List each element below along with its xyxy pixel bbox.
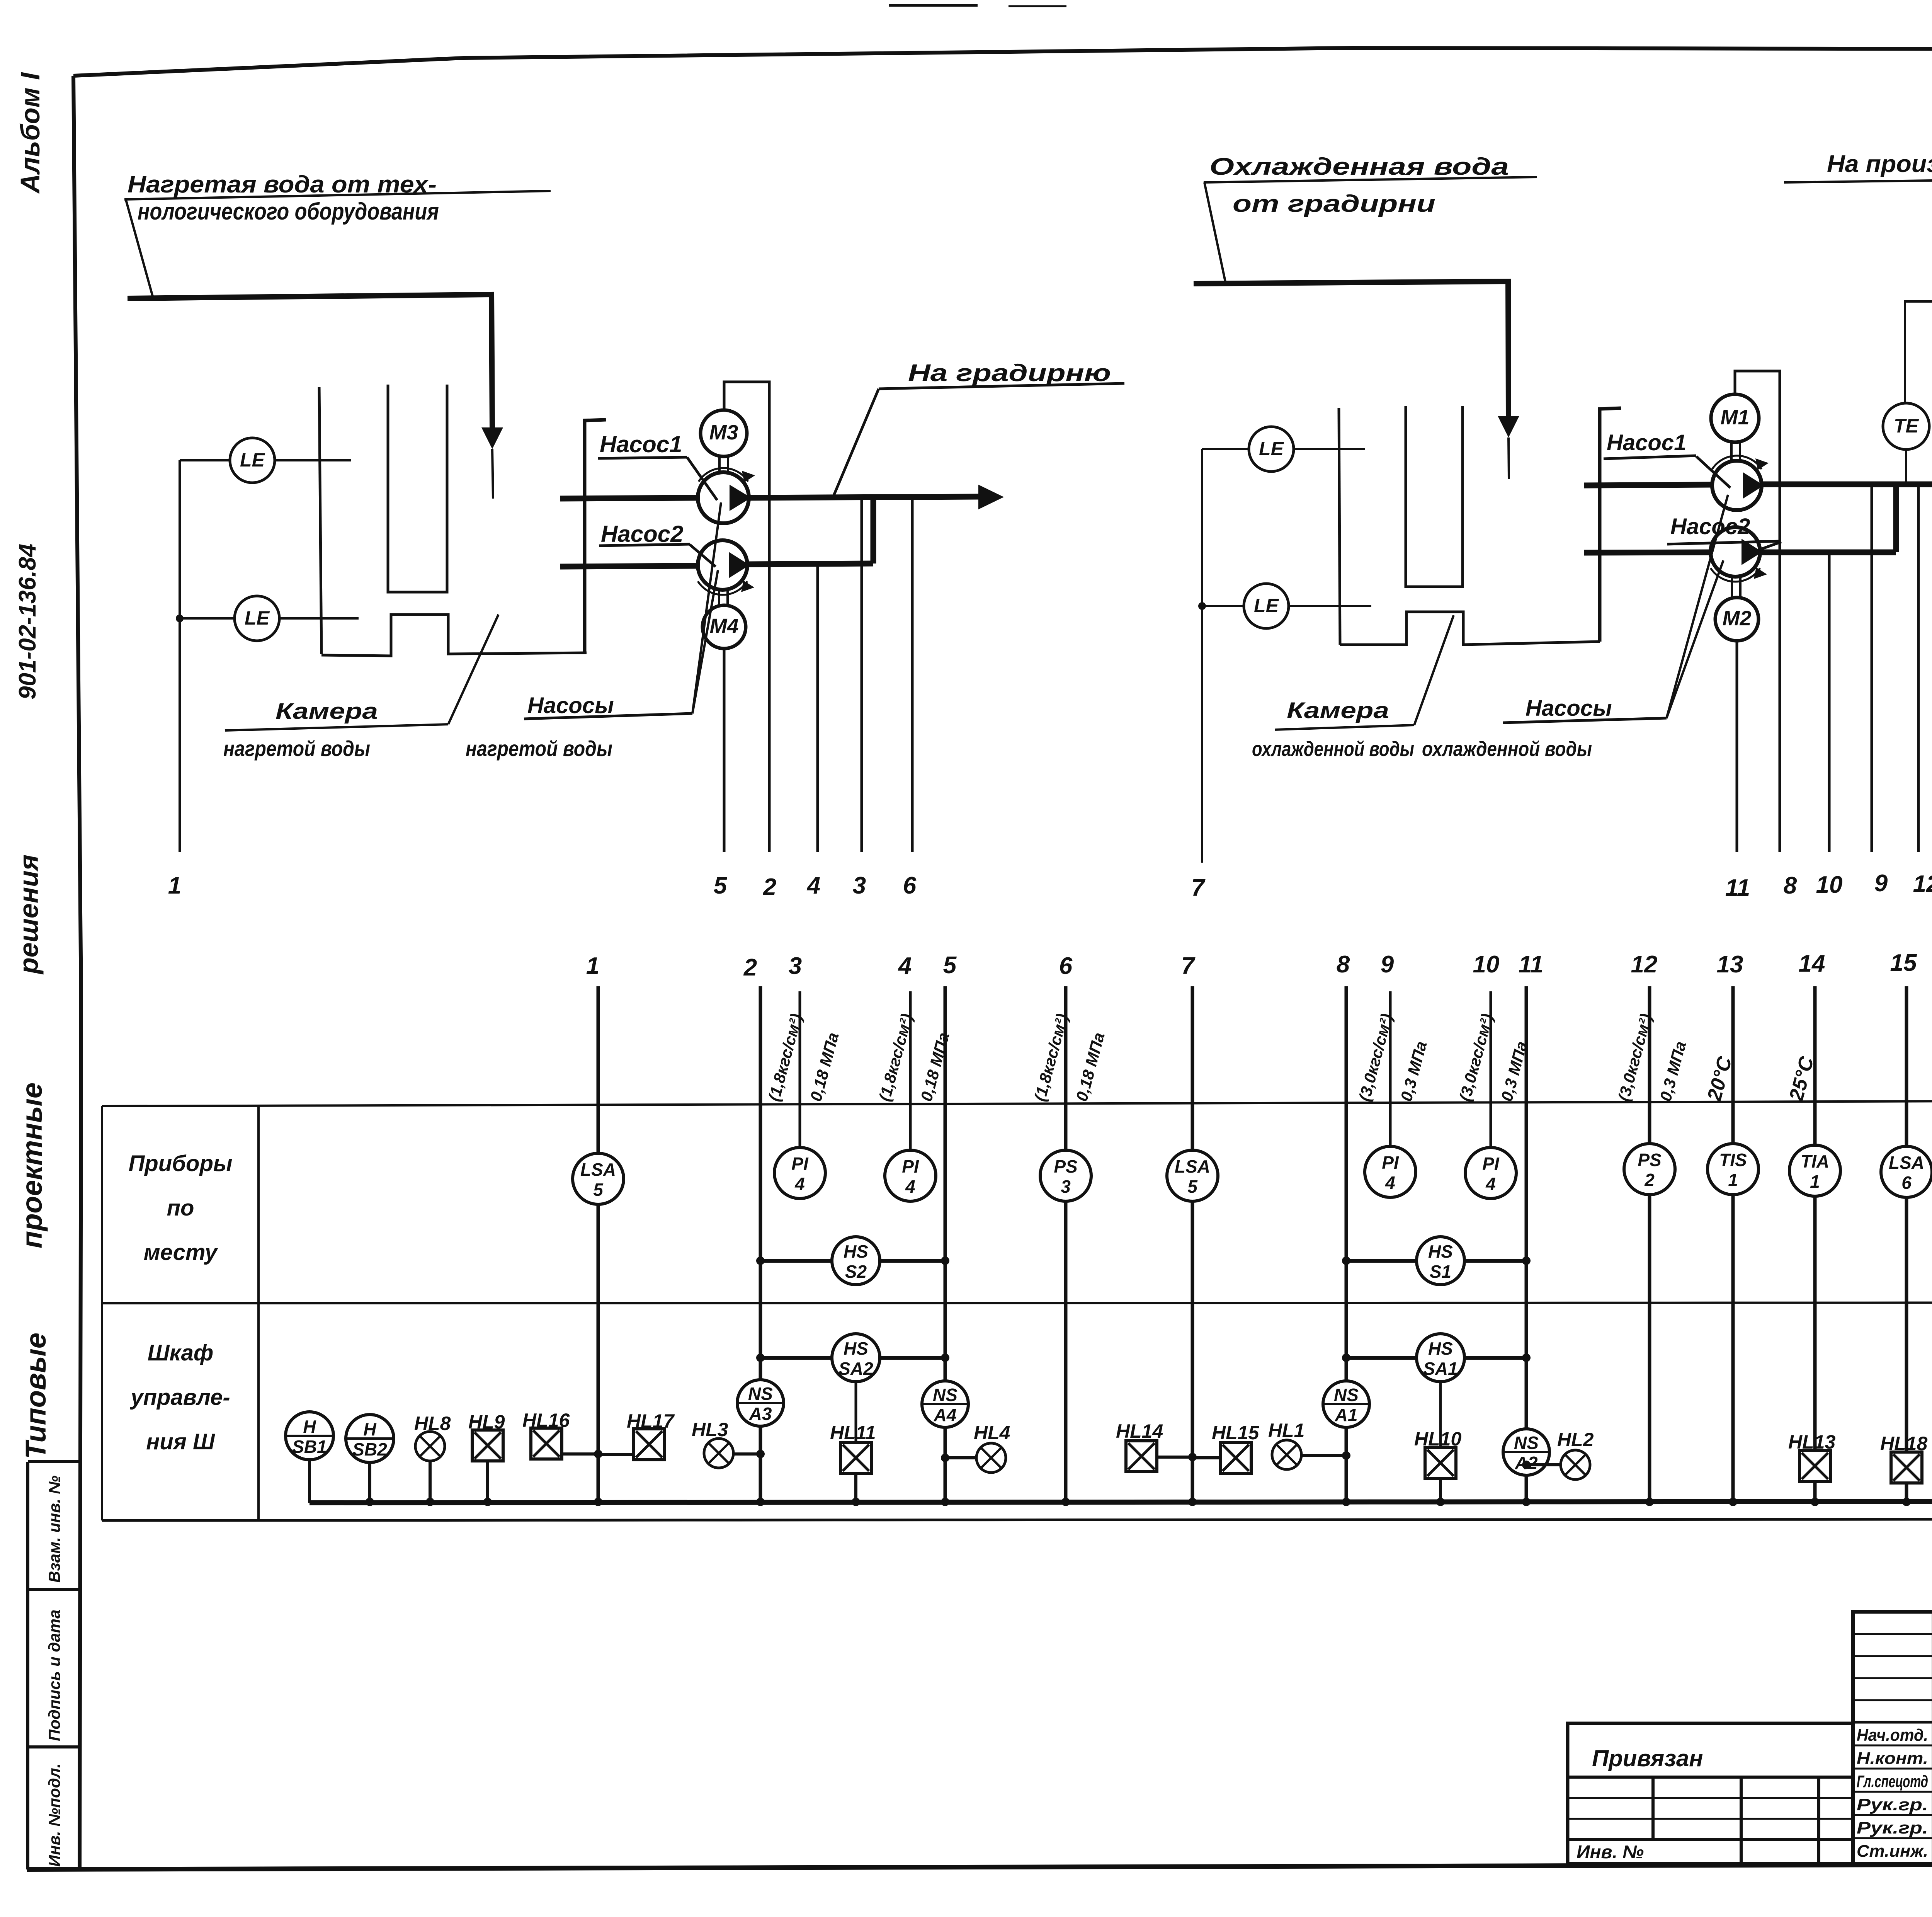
svg-text:TIS: TIS <box>1719 1150 1747 1170</box>
title block outline <box>1853 1612 1932 1864</box>
svg-text:S1: S1 <box>1430 1262 1451 1282</box>
discharge pipe pump2 left <box>747 564 873 564</box>
discharge arrow На градирню <box>978 485 1004 509</box>
svg-text:Н.конт.: Н.конт. <box>1857 1749 1928 1768</box>
pump Насос1 right <box>1584 485 1712 485</box>
svg-text:PI: PI <box>1482 1154 1500 1174</box>
instrument PI 4 (line 3) <box>774 1147 825 1199</box>
svg-text:6: 6 <box>1059 953 1073 979</box>
title block header row line <box>1853 1721 1932 1724</box>
svg-text:4: 4 <box>1385 1173 1395 1193</box>
riser pump2 to main left <box>871 498 876 564</box>
svg-text:ТЕ: ТЕ <box>1894 415 1919 437</box>
svg-text:На производство: На производство <box>1827 151 1932 177</box>
svg-text:Нач.отд.: Нач.отд. <box>1857 1726 1928 1745</box>
feed arrow cold <box>1498 416 1519 438</box>
rotation arc pump2 right <box>1711 568 1760 582</box>
motor M3 cable bracket / wire 2 <box>724 382 769 852</box>
instrument TIA 1 <box>1789 1145 1840 1196</box>
column 7 <box>1191 986 1194 1503</box>
svg-text:0,18 МПа: 0,18 МПа <box>917 1030 952 1103</box>
svg-text:HS: HS <box>844 1241 868 1262</box>
instrument HS S1 <box>1417 1237 1464 1285</box>
bus junction <box>1645 1498 1654 1506</box>
svg-text:HS: HS <box>1428 1338 1453 1359</box>
instrument LSA 5 <box>573 1153 624 1204</box>
table bottom line <box>102 1519 1932 1520</box>
svg-text:1: 1 <box>1728 1170 1738 1190</box>
svg-text:Охлажденная вода: Охлажденная вода <box>1209 153 1509 180</box>
wire 6 <box>911 498 914 852</box>
svg-text:5: 5 <box>1187 1176 1198 1197</box>
motor M1 cable bracket / wire 8 <box>1735 371 1780 852</box>
column 8 <box>1345 986 1348 1503</box>
title block small grid rows <box>1853 1633 1932 1635</box>
instrument LSA 5 (second) <box>1167 1150 1218 1201</box>
svg-text:Гл.спецотд: Гл.спецотд <box>1857 1772 1928 1791</box>
svg-text:охлажденной воды: охлажденной воды <box>1252 737 1414 761</box>
instrument NS A4 <box>922 1381 968 1427</box>
svg-text:охлажденной воды: охлажденной воды <box>1422 737 1592 761</box>
svg-text:LE: LE <box>1254 595 1279 616</box>
instrument PS 2 <box>1624 1144 1675 1195</box>
button H SB2 <box>346 1415 394 1462</box>
wire 7 vertical <box>1201 449 1203 863</box>
svg-text:LE: LE <box>245 607 270 629</box>
svg-text:3: 3 <box>789 953 802 979</box>
svg-text:Камера: Камера <box>276 699 378 724</box>
node junction LE <box>176 615 184 622</box>
svg-text:SA1: SA1 <box>1423 1359 1458 1379</box>
svg-text:LE: LE <box>1259 438 1284 460</box>
svg-text:нагретой воды: нагретой воды <box>466 736 612 761</box>
svg-text:2: 2 <box>763 874 776 901</box>
svg-text:5: 5 <box>943 952 957 979</box>
svg-text:12: 12 <box>1913 871 1932 897</box>
svg-text:проектные: проектные <box>16 1083 48 1248</box>
column 10 stub <box>1490 991 1492 1147</box>
svg-text:нагретой воды: нагретой воды <box>223 736 370 761</box>
motor M2 <box>1731 577 1733 598</box>
svg-text:1: 1 <box>168 872 181 899</box>
bus junction <box>1522 1498 1531 1506</box>
svg-text:Шкаф: Шкаф <box>148 1340 213 1365</box>
bus line <box>310 1501 1932 1503</box>
discharge pump2 right <box>1760 550 1896 555</box>
chamber hot water: left wall <box>319 387 321 654</box>
bus junction <box>1188 1498 1197 1506</box>
button H SB1 <box>286 1412 333 1460</box>
column 5 <box>944 986 947 1503</box>
chamber inlet U-pipe <box>388 385 447 592</box>
svg-text:NS: NS <box>1514 1433 1539 1453</box>
svg-text:4: 4 <box>806 872 820 899</box>
svg-text:Инв. №: Инв. № <box>1577 1842 1644 1863</box>
svg-text:SA2: SA2 <box>838 1359 873 1379</box>
border frame top <box>73 48 1932 76</box>
svg-text:Камера: Камера <box>1287 698 1389 723</box>
column 14 <box>1813 986 1817 1503</box>
svg-text:14: 14 <box>1799 950 1825 977</box>
column 6 <box>1064 986 1068 1503</box>
svg-text:4: 4 <box>794 1174 805 1194</box>
column 13 <box>1731 986 1735 1503</box>
wire 3 <box>861 498 863 852</box>
LE sensor (upper) hot chamber <box>180 459 230 461</box>
svg-text:0,3 МПа: 0,3 МПа <box>1656 1039 1689 1103</box>
svg-text:ния Ш: ния Ш <box>146 1429 215 1454</box>
Привязан box <box>1568 1723 1853 1864</box>
svg-text:5: 5 <box>714 872 728 899</box>
svg-text:Подпись и дата: Подпись и дата <box>45 1610 63 1741</box>
svg-text:4: 4 <box>898 953 912 979</box>
svg-text:HS: HS <box>844 1338 868 1359</box>
chamber right wall <box>585 420 606 653</box>
svg-text:9: 9 <box>1874 870 1888 897</box>
svg-text:месту: месту <box>144 1240 218 1265</box>
LE sensor (lower) hot chamber <box>180 617 235 620</box>
wire 9 <box>1871 484 1873 852</box>
svg-text:HL1: HL1 <box>1268 1420 1304 1441</box>
svg-text:Рук.гр.: Рук.гр. <box>1857 1818 1928 1837</box>
rotation arc pump1 right <box>1712 456 1762 469</box>
discharge main right <box>1762 482 1932 487</box>
instrument HS SA1 <box>1417 1334 1464 1382</box>
svg-text:Насос2: Насос2 <box>1670 514 1750 539</box>
svg-text:901-02-136.84: 901-02-136.84 <box>14 544 41 700</box>
top ruler dashes <box>889 4 978 7</box>
svg-text:10: 10 <box>1816 872 1843 898</box>
svg-text:М3: М3 <box>709 421 738 444</box>
instrument PS 3 <box>1040 1150 1091 1201</box>
pump Насос2 right <box>1584 552 1711 553</box>
column 11 <box>1525 986 1528 1503</box>
bus junction <box>1436 1498 1445 1506</box>
stamp strip divider 1 <box>28 1588 80 1591</box>
TE outer bracket <box>1905 301 1932 484</box>
svg-text:нологического оборудования: нологического оборудования <box>138 198 439 225</box>
svg-text:2: 2 <box>743 954 757 981</box>
svg-text:1: 1 <box>586 953 599 979</box>
svg-text:М1: М1 <box>1720 406 1749 429</box>
column 1 <box>597 986 600 1153</box>
svg-text:PI: PI <box>1382 1153 1399 1173</box>
LE sensor lower cold chamber <box>1202 605 1244 607</box>
label underline <box>124 191 551 199</box>
svg-text:NS: NS <box>933 1385 957 1405</box>
svg-text:управле-: управле- <box>129 1385 230 1410</box>
svg-text:NS: NS <box>748 1384 773 1404</box>
svg-text:Взам. инв. №: Взам. инв. № <box>45 1476 63 1583</box>
svg-text:Н: Н <box>363 1419 376 1439</box>
svg-text:Инв. №подл.: Инв. №подл. <box>45 1764 63 1867</box>
wire 12 <box>1917 484 1920 852</box>
svg-text:Н: Н <box>303 1416 316 1437</box>
wire 5 <box>723 649 726 852</box>
discharge pipe pump1 left <box>749 497 978 498</box>
rotation arc pump1 left <box>699 468 748 482</box>
table left edge <box>101 1106 103 1520</box>
svg-text:по: по <box>167 1195 194 1221</box>
instrument NS A2 <box>1503 1429 1549 1475</box>
instrument HS S2 <box>832 1237 880 1285</box>
chamber floor + weir <box>321 615 587 656</box>
LE sensor upper cold chamber <box>1202 448 1249 450</box>
crossbar HS SA2 <box>760 1356 945 1360</box>
table middle line <box>102 1302 1932 1303</box>
svg-text:LSA: LSA <box>1175 1156 1210 1176</box>
Привязан grid <box>1568 1797 1853 1799</box>
svg-text:HL14: HL14 <box>1116 1420 1163 1442</box>
label leader <box>126 199 153 298</box>
svg-text:Приборы: Приборы <box>129 1151 233 1176</box>
column 15 <box>1905 986 1908 1503</box>
svg-text:HL11: HL11 <box>830 1422 876 1444</box>
column 2 <box>759 986 762 1503</box>
svg-text:Насос1: Насос1 <box>1607 430 1686 455</box>
svg-text:8: 8 <box>1337 951 1350 978</box>
bus junction <box>594 1498 602 1506</box>
svg-text:15: 15 <box>1890 950 1917 976</box>
svg-text:13: 13 <box>1717 951 1743 978</box>
border frame bottom <box>27 1863 1932 1869</box>
svg-text:HL15: HL15 <box>1212 1422 1259 1444</box>
svg-text:0,18 МПа: 0,18 МПа <box>806 1030 842 1103</box>
svg-text:Рук.гр.: Рук.гр. <box>1857 1795 1928 1814</box>
svg-text:LE: LE <box>240 449 265 471</box>
svg-text:3: 3 <box>853 872 866 899</box>
crossbar HS S1 <box>1346 1259 1526 1263</box>
table column separator <box>257 1106 260 1520</box>
svg-text:Альбом I: Альбом I <box>15 72 45 194</box>
svg-text:11: 11 <box>1725 875 1750 901</box>
svg-text:Насосы: Насосы <box>1526 696 1612 721</box>
instrument NS A3 <box>737 1380 784 1426</box>
wire 11 <box>1736 641 1738 852</box>
instrument PI 4 (line 9) <box>1365 1146 1416 1197</box>
svg-text:PS: PS <box>1638 1150 1662 1170</box>
svg-text:LSA: LSA <box>1889 1153 1924 1173</box>
svg-text:A4: A4 <box>934 1405 957 1425</box>
wire 10 <box>1828 552 1831 852</box>
bus junction <box>852 1498 860 1506</box>
column 3 stub <box>799 991 801 1147</box>
instrument NS A1 <box>1323 1381 1369 1427</box>
svg-text:SB2: SB2 <box>352 1439 387 1459</box>
bus junction <box>1811 1498 1819 1506</box>
feed arrow <box>481 427 503 449</box>
svg-text:HL3: HL3 <box>692 1419 728 1440</box>
motor M3 <box>718 456 721 473</box>
TE sensor 1 <box>1883 403 1929 449</box>
feed pipe (hot water inlet) <box>128 295 492 427</box>
feed pipe cold water <box>1194 281 1509 416</box>
bus junction <box>1061 1498 1070 1506</box>
svg-text:HL4: HL4 <box>974 1422 1010 1444</box>
motor M4 <box>718 590 720 606</box>
column 4 stub <box>909 991 912 1150</box>
svg-text:2: 2 <box>1644 1170 1655 1190</box>
svg-text:A1: A1 <box>1335 1405 1358 1425</box>
svg-text:Насос1: Насос1 <box>600 431 682 457</box>
svg-text:S2: S2 <box>845 1262 867 1282</box>
svg-text:Привязан: Привязан <box>1592 1745 1703 1771</box>
table top line <box>102 1100 1932 1106</box>
svg-text:12: 12 <box>1631 951 1658 978</box>
svg-text:М2: М2 <box>1722 607 1751 630</box>
svg-text:11: 11 <box>1519 951 1543 978</box>
bus junction <box>1729 1498 1737 1506</box>
svg-text:4: 4 <box>905 1176 915 1197</box>
instrument HS SA2 <box>832 1334 880 1382</box>
svg-text:7: 7 <box>1181 953 1196 979</box>
svg-text:0,18 МПа: 0,18 МПа <box>1072 1030 1108 1103</box>
pump Насос2 left <box>560 566 698 567</box>
border frame left <box>73 76 81 1868</box>
svg-text:3: 3 <box>1061 1176 1071 1197</box>
wire 1 vertical <box>179 460 181 852</box>
svg-text:1: 1 <box>1810 1171 1820 1192</box>
svg-text:LSA: LSA <box>580 1159 616 1180</box>
svg-text:Насос2: Насос2 <box>601 521 683 547</box>
svg-text:HS: HS <box>1428 1241 1453 1262</box>
instrument TIS 1 <box>1708 1144 1759 1195</box>
stamp strip outer <box>26 1462 29 1869</box>
svg-text:A3: A3 <box>749 1404 772 1424</box>
svg-text:М4: М4 <box>709 615 738 638</box>
svg-text:Типовые: Типовые <box>20 1333 52 1459</box>
drop HS SA1 to HL10 <box>1439 1382 1442 1448</box>
svg-text:0,3 МПа: 0,3 МПа <box>1397 1039 1430 1103</box>
svg-text:7: 7 <box>1191 875 1206 901</box>
chamber cold water: left wall <box>1339 408 1340 645</box>
svg-text:На градирню: На градирню <box>908 360 1111 386</box>
svg-text:8: 8 <box>1784 872 1797 899</box>
svg-text:TIA: TIA <box>1801 1151 1829 1171</box>
svg-text:HL2: HL2 <box>1557 1429 1594 1451</box>
title block signature rows <box>1853 1745 1932 1747</box>
chamber cold right wall <box>1600 408 1621 642</box>
svg-text:PI: PI <box>902 1156 919 1176</box>
svg-text:PI: PI <box>791 1154 809 1174</box>
crossbar HS SA1 <box>1346 1356 1526 1360</box>
svg-text:10: 10 <box>1473 951 1500 978</box>
bus junction <box>756 1498 765 1506</box>
wire 4 <box>816 565 819 852</box>
pump Насос1 left (circle+arrow) <box>560 498 698 499</box>
svg-text:4: 4 <box>1485 1174 1496 1194</box>
svg-text:9: 9 <box>1381 951 1394 978</box>
svg-text:Насосы: Насосы <box>527 693 614 718</box>
svg-text:SB1: SB1 <box>292 1437 327 1457</box>
svg-text:6: 6 <box>1901 1173 1912 1193</box>
column 12 <box>1648 986 1651 1503</box>
svg-text:5: 5 <box>593 1180 604 1200</box>
bus junction <box>366 1498 374 1506</box>
crossbar HS S2 <box>760 1259 945 1263</box>
bus junction <box>1902 1498 1911 1506</box>
instrument PI 4 (line 4) <box>885 1150 936 1201</box>
svg-text:6: 6 <box>903 872 917 899</box>
riser pump2 right <box>1893 485 1899 552</box>
rotation arc pump2 left <box>698 581 747 595</box>
svg-text:NS: NS <box>1334 1385 1359 1405</box>
bus junction <box>941 1498 949 1506</box>
drop HS SA2 to HL11 <box>855 1382 857 1443</box>
motor M1 <box>1730 442 1733 461</box>
bus junction <box>1342 1498 1350 1506</box>
svg-text:PS: PS <box>1054 1156 1078 1176</box>
chamber cold inlet U-pipe <box>1406 406 1463 587</box>
svg-text:от градирни: от градирни <box>1233 191 1435 217</box>
column 9 stub <box>1389 991 1392 1146</box>
instrument PI 4 (line 10) <box>1465 1147 1516 1199</box>
chamber cold floor + weir <box>1340 612 1600 645</box>
svg-text:Ст.инж.: Ст.инж. <box>1857 1842 1928 1861</box>
bus junction <box>426 1498 434 1506</box>
instrument LSA 6 <box>1881 1146 1932 1197</box>
stamp strip divider 2 <box>28 1745 80 1748</box>
svg-text:решения: решения <box>14 855 44 975</box>
bus junction <box>483 1498 492 1506</box>
